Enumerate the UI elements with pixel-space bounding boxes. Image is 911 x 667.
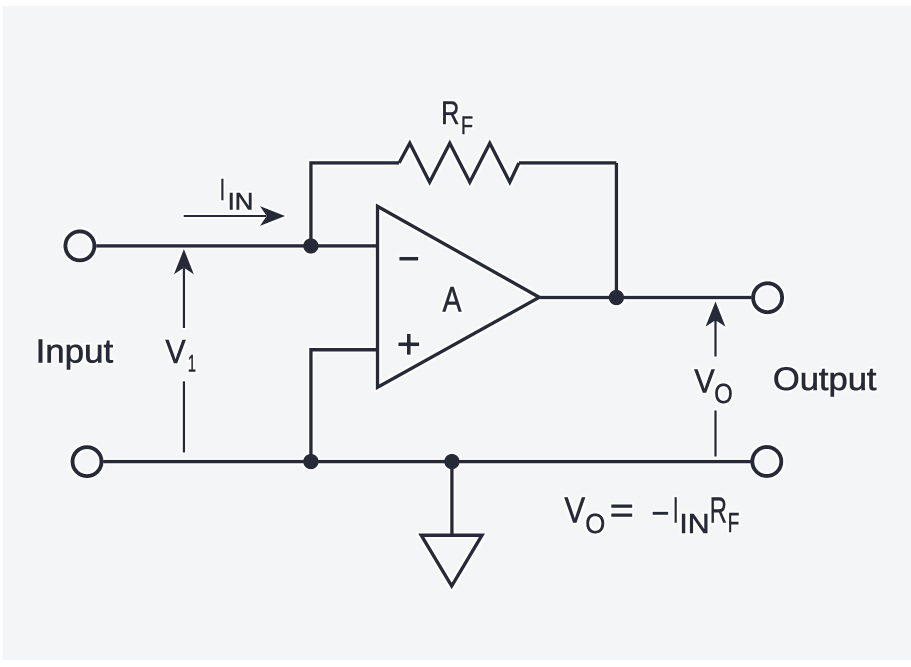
svg-text:R: R [441, 95, 459, 131]
label VO [694, 363, 733, 410]
svg-text:I: I [220, 172, 226, 207]
svg-text:=: = [610, 490, 634, 531]
svg-text:O: O [714, 378, 733, 409]
arrow VO (output voltage) [705, 301, 725, 456]
svg-text:–: – [653, 490, 668, 531]
op-amp plus sign [398, 334, 419, 355]
svg-text:V: V [165, 333, 185, 370]
wire: bottom rail [103, 460, 750, 464]
wire: feedback riser and top run to resistor [311, 163, 399, 246]
resistor RF zigzag [399, 143, 519, 182]
wire: op-amp output to output terminal [540, 296, 752, 300]
svg-text:V: V [694, 363, 715, 400]
output terminal circle [753, 283, 782, 312]
wire: input terminal to op-amp inverting input [96, 244, 377, 248]
wire: ground stem [450, 462, 454, 536]
svg-text:F: F [728, 507, 740, 538]
bottom-left terminal circle [73, 447, 102, 476]
input terminal circle [65, 231, 94, 260]
wire: resistor to output drop corner [519, 161, 617, 165]
wire: feedback drop to output node [615, 163, 619, 298]
wire: bottom node to op-amp non-inverting input [311, 350, 378, 462]
svg-text:IN: IN [679, 508, 709, 539]
ground symbol triangle [421, 535, 482, 586]
node A: input/feedback junction dot [303, 238, 318, 253]
arrow V1 (input voltage) [174, 249, 194, 453]
svg-text:1: 1 [188, 351, 196, 378]
formula VO = -IIN RF [564, 490, 739, 539]
svg-text:O: O [585, 508, 605, 539]
svg-text:IN: IN [228, 188, 254, 215]
svg-text:F: F [461, 112, 473, 140]
op-amp A triangle [378, 206, 540, 387]
svg-text:Output: Output [773, 361, 877, 397]
svg-text:A: A [443, 280, 463, 319]
svg-text:Input: Input [36, 332, 114, 369]
svg-text:R: R [710, 490, 727, 531]
node B: output/feedback junction dot [609, 290, 624, 305]
svg-text:I: I [673, 490, 679, 531]
op-amp minus sign [399, 257, 418, 261]
node C: bottom rail left junction dot [303, 454, 318, 469]
arrow IIN (current direction) [184, 206, 286, 226]
label IIN [220, 172, 254, 215]
label RF [441, 95, 473, 140]
node D: bottom rail ground junction dot [444, 454, 459, 469]
label V1 [165, 333, 196, 378]
svg-text:V: V [564, 490, 585, 531]
bottom-right terminal circle [752, 447, 781, 476]
